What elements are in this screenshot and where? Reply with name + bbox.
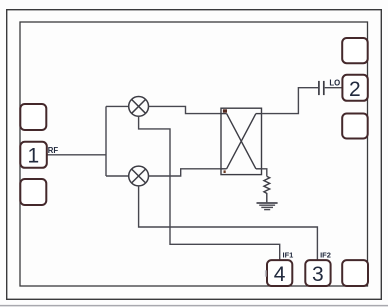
- pin 2 pad: [342, 75, 367, 101]
- wire transformer bottom-right to resistor: [262, 169, 267, 177]
- window edge line at bottom: [0, 305, 388, 307]
- wire lower mixer IF to pin 3: [139, 186, 318, 260]
- wire upper mixer output to transformer top-left: [149, 106, 222, 113]
- ground: [257, 203, 278, 210]
- stray tick mark left of pin 4: [265, 270, 267, 276]
- svg-text:IF1: IF1: [283, 251, 294, 260]
- pin 4 pad: [267, 260, 292, 286]
- wire upper mixer IF to pin 4: [139, 116, 280, 260]
- NC pad bottom-right: [342, 260, 368, 286]
- svg-text:3: 3: [312, 263, 324, 286]
- NC pad lower-left: [20, 179, 46, 205]
- svg-text:IF2: IF2: [320, 251, 331, 260]
- NC pad upper-right: [342, 38, 368, 63]
- wire to lower mixer input: [106, 175, 129, 177]
- svg-text:LO: LO: [329, 78, 340, 87]
- wire transformer top-right to capacitor (LO net): [262, 88, 319, 114]
- svg-text:1: 1: [28, 145, 40, 168]
- mixer M2 (lower): [129, 166, 149, 186]
- pin 3 pad: [305, 260, 330, 286]
- resistor R1: [264, 176, 270, 202]
- wire capacitor to pin 2: [325, 87, 343, 89]
- transformer polarity dot (top): [223, 109, 227, 112]
- transformer polarity dot (bottom): [224, 170, 226, 173]
- NC pad mid-right: [342, 114, 368, 139]
- wire RF: pin1 to junction: [47, 154, 106, 156]
- pin 1 pad: [20, 142, 47, 168]
- mixer M1 (upper): [129, 97, 149, 117]
- NC pad upper-left: [20, 104, 46, 130]
- transformer T1 (crossover box): [221, 108, 262, 174]
- die outline (inner rectangle): [20, 22, 368, 286]
- wire lower mixer output to transformer bottom-left: [149, 169, 222, 176]
- svg-text:4: 4: [274, 263, 286, 286]
- capacitor C1: [319, 81, 324, 95]
- wire RF junction vertical: [105, 106, 107, 176]
- svg-text:RF: RF: [48, 146, 59, 155]
- svg-text:2: 2: [349, 78, 361, 101]
- wire to upper mixer input: [106, 105, 129, 107]
